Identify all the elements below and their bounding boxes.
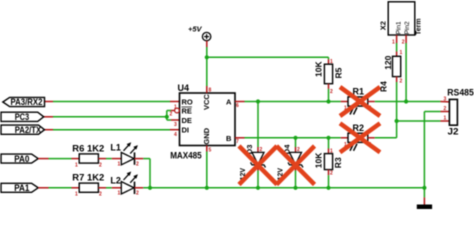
svg-text:2: 2 bbox=[330, 89, 333, 95]
svg-text:B: B bbox=[226, 134, 232, 143]
svg-text:8: 8 bbox=[209, 88, 212, 94]
svg-text:3: 3 bbox=[444, 97, 447, 103]
LED L2 bbox=[110, 172, 139, 197]
svg-text:6: 6 bbox=[236, 103, 239, 109]
resistor R4 value 120 bbox=[379, 50, 403, 92]
IC U4 MAX485 bbox=[170, 83, 240, 161]
svg-text:10K: 10K bbox=[314, 61, 324, 77]
junction +5V rail bbox=[205, 55, 209, 59]
svg-text:L2: L2 bbox=[110, 176, 121, 186]
svg-text:MAX485: MAX485 bbox=[170, 151, 202, 161]
svg-text:PA2/TX: PA2/TX bbox=[15, 125, 42, 135]
svg-text:PA3/RX2: PA3/RX2 bbox=[11, 97, 43, 107]
svg-text:1: 1 bbox=[118, 191, 121, 197]
ground symbol bbox=[417, 205, 432, 210]
svg-text:5: 5 bbox=[209, 148, 212, 154]
port PC3 bbox=[1, 112, 44, 122]
svg-text:1: 1 bbox=[330, 59, 333, 65]
svg-text:10K: 10K bbox=[314, 152, 324, 168]
svg-text:3: 3 bbox=[174, 122, 177, 128]
resistor R7 value 1K2 bbox=[72, 173, 104, 198]
svg-text:RE: RE bbox=[182, 107, 192, 116]
svg-text:2: 2 bbox=[260, 147, 263, 153]
svg-text:2: 2 bbox=[297, 147, 300, 153]
wire +5V rail to R5 bbox=[207, 57, 329, 64]
wire PC3 to U4 RE/DE tie bbox=[44, 111, 180, 121]
svg-text:1: 1 bbox=[400, 50, 403, 56]
junction D3/A bbox=[256, 99, 260, 103]
svg-text:120: 120 bbox=[383, 55, 393, 69]
port PA1 bbox=[1, 183, 38, 193]
wire to GND symbol bbox=[423, 188, 425, 205]
svg-text:1: 1 bbox=[174, 105, 177, 111]
junction PC3 tie bbox=[165, 115, 169, 119]
port PA3/RX2 bbox=[3, 97, 45, 107]
junction R3/GND bus bbox=[326, 186, 330, 190]
svg-text:PA1: PA1 bbox=[14, 183, 29, 193]
junction R5/A bbox=[326, 99, 330, 103]
svg-text:Pin2: Pin2 bbox=[404, 21, 411, 34]
wire X2 pin2 down to A net bbox=[405, 35, 407, 102]
wire U4 GND to bus bbox=[206, 146, 208, 188]
resistor R1 (not fitted) bbox=[344, 87, 372, 115]
junction bus / GND symbol bbox=[422, 186, 426, 190]
junction X2 pin2 / A net bbox=[404, 99, 408, 103]
svg-text:L1: L1 bbox=[110, 143, 121, 153]
+5V supply symbol bbox=[188, 25, 211, 41]
svg-text:7: 7 bbox=[236, 139, 239, 145]
wire PA1 to R7 bbox=[38, 187, 79, 189]
resistor R3 value 10K bbox=[314, 138, 344, 188]
cross-out X over D3 bbox=[239, 146, 277, 185]
svg-text:RS485: RS485 bbox=[447, 87, 474, 97]
cross-out X over D4 bbox=[277, 146, 315, 185]
junction R3/B bbox=[326, 136, 330, 140]
svg-text:R4: R4 bbox=[379, 81, 389, 92]
svg-text:R6 1K2: R6 1K2 bbox=[72, 143, 104, 154]
wire R5 to A net bbox=[328, 84, 330, 102]
wire R2 to R4/J2 corner (B net right) bbox=[368, 137, 397, 139]
svg-text:2: 2 bbox=[136, 162, 139, 168]
wire R1 to J2 pin3 (A net right) bbox=[368, 101, 450, 103]
LED L1 bbox=[110, 142, 139, 167]
wire +5V to U4 VCC bbox=[206, 41, 208, 93]
svg-text:DI: DI bbox=[182, 126, 190, 135]
junction D4/GND bus bbox=[293, 186, 297, 190]
svg-text:R3: R3 bbox=[333, 157, 343, 168]
zener diode D4 (not fitted) bbox=[277, 138, 303, 188]
svg-text:2: 2 bbox=[330, 171, 333, 177]
wire U4 B to R2 (net B) bbox=[235, 137, 348, 139]
wire R6 to L1 bbox=[98, 158, 121, 160]
svg-text:VCC: VCC bbox=[202, 94, 211, 110]
svg-text:2: 2 bbox=[170, 111, 173, 117]
svg-text:1: 1 bbox=[444, 116, 447, 122]
svg-text:2: 2 bbox=[400, 79, 403, 85]
svg-text:4: 4 bbox=[174, 132, 177, 138]
wire J2 pin2 to GND bus bbox=[424, 112, 449, 188]
svg-text:DE: DE bbox=[182, 116, 192, 125]
svg-text:U4: U4 bbox=[178, 83, 190, 93]
svg-text:RO: RO bbox=[182, 98, 193, 107]
port PA2/TX bbox=[1, 125, 45, 135]
svg-text:1: 1 bbox=[75, 163, 78, 169]
svg-text:Pin1: Pin1 bbox=[395, 21, 402, 34]
wire PA3/RX2 to U4 RO (net RX) bbox=[45, 101, 180, 103]
wire L1 to L2 cathode junction bbox=[135, 159, 151, 188]
zener diode D3 (not fitted) bbox=[240, 102, 266, 188]
wire R4 down through A net to B net bbox=[396, 77, 398, 138]
svg-text:PA0: PA0 bbox=[14, 154, 29, 164]
junction D4/B bbox=[293, 136, 297, 140]
svg-text:1: 1 bbox=[75, 192, 78, 198]
wire L2 / GND bus bbox=[135, 187, 425, 189]
svg-text:+5V: +5V bbox=[188, 25, 203, 34]
wire R7 to L2 bbox=[98, 187, 121, 189]
svg-text:X2: X2 bbox=[379, 21, 388, 30]
junction R4 / J2 pin1 wire bbox=[395, 119, 399, 123]
svg-text:A: A bbox=[226, 98, 232, 107]
svg-text:2: 2 bbox=[99, 163, 102, 169]
resistor R2 (not fitted) bbox=[344, 123, 372, 151]
junction L1/L2 bbox=[148, 186, 152, 190]
cross-out X over R1 bbox=[340, 87, 380, 116]
svg-text:R7 1K2: R7 1K2 bbox=[72, 173, 104, 184]
svg-text:R5: R5 bbox=[334, 67, 344, 78]
svg-text:1: 1 bbox=[330, 149, 333, 155]
wire X2 pin1 to R4 bbox=[396, 35, 398, 56]
junction U4 GND / bus bbox=[205, 186, 209, 190]
connector X2 (Term jumper) bbox=[379, 2, 423, 46]
svg-text:2: 2 bbox=[136, 191, 139, 197]
resistor R5 value 10K bbox=[314, 59, 344, 95]
junction D3/GND bus bbox=[256, 186, 260, 190]
svg-text:Term: Term bbox=[416, 18, 423, 35]
cross-out X over R2 bbox=[340, 123, 380, 152]
svg-text:2: 2 bbox=[99, 192, 102, 198]
svg-text:2: 2 bbox=[444, 106, 447, 112]
svg-text:1: 1 bbox=[392, 40, 395, 46]
svg-text:J2: J2 bbox=[448, 126, 459, 136]
svg-text:2: 2 bbox=[402, 40, 405, 46]
svg-text:GND: GND bbox=[202, 127, 211, 144]
wire J2 pin1 (B) bbox=[397, 120, 450, 122]
wire PA2/TX to U4 DI bbox=[45, 129, 180, 131]
wire U4 A to R1 (net A) bbox=[235, 101, 348, 103]
connector J2 RS485 bbox=[444, 87, 474, 136]
svg-text:1: 1 bbox=[118, 162, 121, 168]
wire PA0 to R6 bbox=[38, 158, 79, 160]
resistor R6 value 1K2 bbox=[72, 143, 104, 168]
svg-text:PC3: PC3 bbox=[15, 112, 30, 122]
port PA0 bbox=[1, 154, 38, 164]
